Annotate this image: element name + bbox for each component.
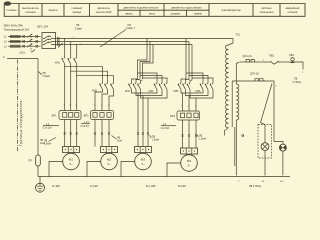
svg-text:останов: останов (288, 11, 299, 14)
lamp EL1 feed wire (264, 125, 266, 143)
connector pair on L3 after switch (36, 45, 38, 48)
FR3 heater 2 (187, 113, 191, 118)
FR2 heater 2 (100, 113, 104, 118)
feed to KM5 poles (181, 79, 192, 83)
motor1 terminal box (63, 147, 80, 153)
svg-text:QS1: QS1 (20, 51, 26, 55)
svg-text:QF1 20А: QF1 20А (37, 25, 48, 29)
svg-text:44 1кВт: 44 1кВт (90, 186, 99, 188)
lamp EL1 bottom wire (264, 151, 266, 176)
branch1 wires to thermal relay (65, 64, 77, 111)
secondary top lead to lighting row (236, 62, 239, 84)
secondary bottom lead to lamp bus (235, 120, 237, 176)
contactor KM3 pole1 (129, 83, 132, 90)
svg-text:защита: защита (48, 9, 58, 12)
transformer TC1 secondary winding (236, 84, 239, 120)
QF1 pole 3 (43, 42, 56, 45)
FR3 heater 3 (194, 113, 198, 118)
indicator lamp HL1 (279, 144, 286, 151)
breaker QF4 symbol (255, 79, 265, 81)
svg-text:трансформатор: трансформатор (221, 8, 241, 12)
branch2 wires to motor (95, 120, 109, 147)
svg-text:КМ5: КМ5 (174, 90, 180, 93)
row2 left conductor / secondary return (231, 81, 233, 127)
contactor KM1 pole1 (62, 58, 65, 65)
connector pair on L2 after switch (36, 40, 38, 43)
thermal relay FR1 box (59, 111, 81, 120)
wire to button (278, 61, 291, 63)
contact arrowheads on contactor blades (61, 58, 211, 86)
FR2 heater 1 (93, 113, 97, 118)
svg-text:М1: М1 (69, 158, 73, 162)
machine boundary dash-dot (17, 60, 19, 153)
svg-text:КМ1: КМ1 (55, 61, 61, 64)
FR1 heater 2 (69, 113, 73, 118)
svg-text:2,5мм²: 2,5мм² (43, 75, 51, 78)
svg-text:ПР: ПР (29, 160, 33, 163)
merged output wires branch4 (183, 93, 197, 111)
wire L1 entry (8, 36, 41, 38)
feed to KM3 poles (132, 79, 143, 83)
lighting row1 wire (240, 61, 246, 63)
connector pair on L1 after switch (36, 35, 38, 38)
svg-text:вниз: вниз (149, 13, 155, 16)
thermal relay FR2 box (91, 111, 114, 120)
svg-text:М4: М4 (187, 159, 191, 163)
function-strip header table (4, 4, 305, 17)
motor3 terminal box (135, 147, 152, 153)
breaker QF3 symbol (246, 60, 256, 62)
motor M3 (135, 153, 152, 170)
svg-text:освещение: освещение (260, 11, 274, 14)
svg-text:2,5мм²: 2,5мм² (44, 143, 51, 146)
svg-text:главный: главный (72, 6, 83, 10)
disconnect switch QS1 blade L1 (27, 34, 33, 38)
QS1 linkage dashed (30, 34, 32, 52)
contactor KM6 pole3 (210, 83, 213, 90)
svg-text:1,5мм²: 1,5мм² (199, 138, 206, 141)
wire row2 to corner and HL feed (263, 81, 283, 144)
QF1 pole 1 (43, 36, 56, 39)
contactor KM4 pole2 (159, 83, 162, 90)
svg-text:QF3-2А: QF3-2А (243, 54, 252, 58)
earth electrode symbol (36, 183, 45, 192)
branch1 wires to motor (65, 120, 77, 147)
FR1 heater 3 (75, 113, 79, 118)
reversing merge wiring branch3 (132, 90, 168, 99)
motor M3 earth wire (121, 162, 135, 177)
FR2 heater 3 (107, 113, 111, 118)
svg-text:разжим: разжим (171, 13, 180, 16)
svg-text:31 4кВт: 31 4кВт (52, 186, 61, 188)
motor M4 (181, 155, 198, 172)
cable count slash on buses (58, 43, 63, 48)
bus L1 (56, 38, 233, 40)
svg-text:380V 50Hz 3Ph: 380V 50Hz 3Ph (4, 24, 24, 28)
svg-text:М2: М2 (107, 158, 111, 162)
secondary auxiliary lead (234, 127, 236, 166)
reversing merge wiring branch4 (181, 90, 213, 99)
connector pair on L2 (23, 40, 25, 43)
contactor KM5 pole1 (178, 83, 181, 90)
svg-text:ФР1: ФР1 (52, 115, 58, 118)
motor2 terminal box (101, 147, 118, 153)
svg-text:SB1: SB1 (289, 53, 294, 57)
svg-text:ПВ: ПВ (152, 136, 156, 138)
neutral point mark (242, 135, 244, 137)
branch1 drop wires from buses (65, 39, 77, 58)
motor M2 (101, 153, 118, 170)
svg-text:ПВ: ПВ (44, 140, 48, 142)
connector pair on bus L3 output (57, 43, 59, 46)
crossover feed to KM4 (138, 73, 168, 83)
svg-text:КМ4: КМ4 (149, 90, 155, 93)
svg-text:3~: 3~ (69, 162, 73, 166)
svg-text:Токоподводящий 30А: Токоподводящий 30А (4, 28, 30, 32)
terminal block hatching on L1 (11, 35, 20, 38)
bus L3 (56, 44, 192, 46)
branch3 drop wires from buses (138, 39, 154, 80)
svg-text:ПВ: ПВ (117, 137, 121, 139)
QF1 pole 2 (43, 39, 56, 42)
svg-text:выключатель: выключатель (22, 7, 39, 10)
wire L2 entry (8, 41, 41, 43)
terminal block hatching on L2 (11, 40, 20, 43)
wire to switch (256, 61, 271, 63)
svg-text:ПВ: ПВ (199, 135, 203, 137)
svg-text:3~: 3~ (141, 162, 145, 166)
cable marks branch1 (64, 133, 78, 135)
branch2 wires to FR2 (95, 90, 114, 111)
svg-text:КМ3: КМ3 (125, 90, 131, 93)
contactor KM3 pole2 (133, 83, 136, 90)
motor4 terminal box (181, 148, 198, 154)
svg-text:1,9-2,5А: 1,9-2,5А (161, 127, 170, 130)
terminal block hatching on L3 (11, 45, 20, 48)
svg-text:двигатель: двигатель (97, 7, 110, 10)
svg-text:6,10-8,5: 6,10-8,5 (81, 126, 90, 128)
fuse capsule on PE drop (36, 155, 41, 166)
branch4 drop wires from buses (186, 39, 192, 81)
svg-text:QF3-2А: QF3-2А (250, 72, 259, 76)
connector pair on L3 (23, 45, 25, 48)
motor M1 earth wire (49, 162, 63, 177)
contactor KM6 pole2 (205, 83, 208, 90)
button SB1 symbol (291, 58, 294, 61)
svg-text:1,5мм²: 1,5мм² (75, 27, 83, 30)
contactor KM5 pole2 (183, 83, 186, 90)
svg-text:двигатель подъема консоли: двигатель подъема консоли (124, 6, 159, 9)
svg-text:аварийный: аварийный (286, 6, 300, 10)
svg-text:зажим: зажим (194, 13, 202, 16)
disconnect switch QS1 blade L3 (27, 44, 33, 48)
lamp HL1 wires (282, 151, 284, 175)
scan smudge top-left corner (4, 1, 11, 5)
svg-text:ТС1: ТС1 (236, 32, 241, 36)
svg-text:питания: питания (25, 11, 36, 14)
wire L3 entry (8, 45, 41, 47)
cable marks branch2 (94, 133, 110, 135)
wire below fuse (37, 166, 39, 177)
circuit breaker QF1 box (42, 33, 56, 49)
contactor KM1 pole2 (68, 58, 71, 65)
contactor KM3 pole3 (138, 83, 141, 90)
svg-text:1мм²: 1мм² (117, 140, 122, 143)
lighting row2 wire (232, 80, 255, 82)
contactor KM4 pole3 (164, 83, 167, 90)
svg-text:двигатель гидростанции: двигатель гидростанции (171, 6, 202, 9)
FR1 heater 1 (63, 113, 67, 118)
svg-text:3~: 3~ (107, 162, 111, 166)
distribution stair to branch2 (65, 67, 114, 83)
motor M1 (63, 153, 80, 170)
transformer TC1 primary winding (226, 45, 229, 128)
merged output wires branch3 (138, 93, 148, 147)
svg-text:3~: 3~ (187, 164, 191, 168)
svg-text:0,75мм²: 0,75мм² (293, 81, 302, 84)
svg-text:рабочее: рабочее (261, 6, 272, 10)
svg-text:ПВ1: ПВ1 (269, 53, 275, 57)
FR3 heater 1 (180, 113, 184, 118)
cable marks branch3 (137, 133, 149, 135)
bus L2 (56, 41, 189, 43)
contactor KM5 pole3 (187, 83, 190, 90)
svg-text:1,5мм²: 1,5мм² (152, 139, 159, 142)
lamp enclosure dashed box (258, 125, 272, 159)
svg-text:насоса СОЖ: насоса СОЖ (96, 10, 112, 14)
connector pair on L1 (23, 35, 25, 38)
svg-text:привод: привод (72, 11, 81, 14)
earth electrode drop (39, 177, 41, 184)
connector pair on bus L2 output (57, 40, 59, 43)
svg-text:82 1,2кВт: 82 1,2кВт (146, 186, 157, 188)
contactor KM4 pole1 (154, 83, 157, 90)
svg-text:ФР3: ФР3 (170, 115, 176, 118)
svg-text:вверх: вверх (125, 13, 133, 16)
connector pair on bus L1 output (57, 37, 59, 40)
svg-text:КМ6: КМ6 (196, 90, 202, 93)
PE wire from entry (7, 59, 38, 156)
node taps branch1 (64, 38, 65, 39)
transformer primary bottom lead (225, 128, 229, 136)
motor M4 earth wire (167, 163, 181, 177)
contactor KM2 pole3 (111, 83, 114, 90)
contactor KM2 pole1 (100, 83, 103, 90)
slash near QS1 (32, 50, 36, 53)
svg-text:1,5мм² 1: 1,5мм² 1 (126, 27, 136, 30)
svg-text:83 1кВт: 83 1кВт (178, 186, 187, 188)
svg-text:ФР2: ФР2 (84, 115, 90, 118)
contactor KM1 pole3 (74, 58, 77, 65)
svg-text:питание: питание (7, 9, 18, 12)
earth bus (38, 176, 290, 178)
contactor KM6 pole1 (200, 83, 203, 90)
crossover feed to KM6 (186, 73, 213, 83)
svg-text:М3: М3 (141, 158, 145, 162)
switch ПВ1 blade (271, 61, 279, 64)
motor M2 earth wire (87, 162, 101, 177)
cable marks branch4 (182, 135, 198, 137)
transformer primary feed (229, 39, 234, 46)
svg-text:ПВ 0,75мм²: ПВ 0,75мм² (249, 185, 261, 188)
disconnect switch QS1 blade L2 (27, 39, 33, 43)
work lamp EL1 (261, 143, 269, 151)
thermal relay FR3 box (177, 111, 200, 120)
svg-text:Границы оборудования: Границы оборудования (19, 100, 23, 146)
diagonal wire to work lamp (261, 84, 273, 125)
contactor KM2 pole2 (105, 83, 108, 90)
svg-text:6,10-11А: 6,10-11А (43, 127, 53, 130)
branch4 wires to motor (183, 120, 197, 148)
